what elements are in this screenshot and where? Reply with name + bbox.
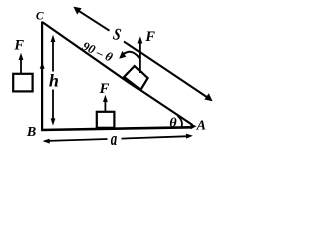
svg-text:B: B bbox=[26, 125, 36, 140]
svg-text:θ: θ bbox=[169, 116, 177, 131]
svg-text:F: F bbox=[144, 29, 155, 45]
svg-text:F: F bbox=[99, 81, 110, 97]
svg-text:h: h bbox=[49, 71, 59, 91]
svg-text:C: C bbox=[36, 11, 44, 23]
svg-text:a: a bbox=[111, 129, 117, 150]
svg-text:F: F bbox=[13, 38, 24, 54]
svg-text:A: A bbox=[196, 119, 206, 134]
